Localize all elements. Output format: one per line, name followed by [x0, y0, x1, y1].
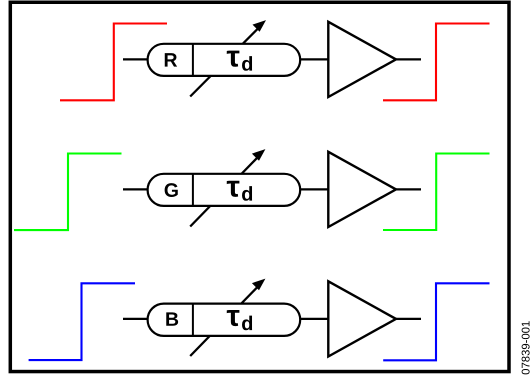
buffer amplifier (G channel) [328, 152, 396, 227]
wire: buffer output (B channel) [396, 318, 421, 320]
R channel output step waveform [383, 24, 490, 101]
label R [165, 53, 177, 66]
wire: delay element R to buffer [300, 58, 330, 60]
wire: delay element B to buffer [300, 318, 330, 320]
delay element G: divider line [192, 174, 194, 206]
value label tau_d (delay G) [227, 181, 252, 201]
figure number 07839-001 [522, 321, 530, 374]
delay element R: divider line [192, 44, 194, 76]
variable-delay adjustment arrow (delay G) [190, 149, 265, 226]
B channel output step waveform [383, 283, 489, 360]
delay element B: divider line [192, 304, 194, 336]
G channel input step waveform [14, 154, 122, 231]
label B [166, 312, 178, 325]
wire: input to delay element B [123, 318, 150, 320]
G channel output step waveform [383, 154, 490, 231]
label G [165, 183, 178, 197]
delay element B: pill body [148, 304, 301, 336]
R channel input step waveform [60, 24, 167, 101]
variable-delay adjustment arrow (delay B) [190, 279, 265, 356]
wire: input to delay element G [123, 188, 150, 190]
variable-delay adjustment arrow (delay R) [190, 20, 266, 96]
wire: delay element G to buffer [300, 188, 330, 190]
buffer amplifier (R channel) [328, 22, 396, 97]
delay element G: pill body [148, 174, 301, 206]
value label tau_d (delay R) [227, 51, 252, 71]
value label tau_d (delay B) [227, 310, 252, 330]
wire: buffer output (G channel) [396, 188, 421, 190]
wire: input to delay element R [123, 58, 150, 60]
B channel input step waveform [29, 283, 135, 360]
delay element R: pill body [148, 44, 301, 76]
wire: buffer output (R channel) [396, 58, 421, 60]
buffer amplifier (B channel) [328, 281, 396, 356]
